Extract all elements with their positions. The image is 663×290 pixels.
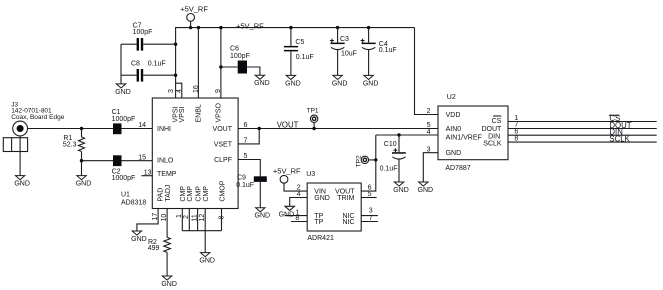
svg-text:Coax, Board Edge: Coax, Board Edge	[11, 114, 65, 121]
svg-text:CMP: CMP	[196, 186, 203, 202]
wire U1 pin4 VPSI stub	[176, 83, 182, 98]
svg-text:15: 15	[138, 154, 146, 161]
svg-text:4: 4	[427, 129, 431, 136]
svg-text:VOUT: VOUT	[213, 126, 233, 133]
svg-text:C9: C9	[237, 175, 246, 182]
wire VDD drop from rail to U2	[415, 28, 439, 115]
ground below PAD	[131, 231, 147, 243]
node junction C4 on rail	[367, 26, 370, 29]
node junction +5V circle on rail	[189, 26, 192, 29]
wire from +5V_RF circle to rail	[190, 21, 192, 27]
svg-text:0.1uF: 0.1uF	[236, 182, 254, 189]
svg-text:0.1uF: 0.1uF	[379, 47, 397, 54]
svg-text:AD8318: AD8318	[121, 200, 146, 207]
wire VSET feedback loop	[238, 129, 259, 144]
svg-text:AD7887: AD7887	[445, 165, 470, 172]
ground below C4	[363, 75, 379, 87]
ground below C9	[255, 208, 271, 220]
wire C7 right lead	[143, 43, 175, 45]
svg-text:VSET: VSET	[214, 142, 233, 149]
wire CMP pin1 down	[181, 209, 183, 231]
svg-text:8: 8	[219, 216, 226, 220]
svg-text:VDD: VDD	[446, 112, 461, 119]
svg-text:+5V_RF: +5V_RF	[180, 4, 208, 13]
svg-text:DOUT: DOUT	[481, 126, 502, 133]
capacitor C10 0.1uF polarized	[380, 141, 406, 172]
ground below C10	[393, 182, 409, 194]
node junction VSET feedback	[258, 127, 261, 130]
wire C6 left lead	[221, 66, 238, 68]
svg-text:CMOP: CMOP	[220, 180, 227, 201]
capacitor C6 100pF	[230, 46, 250, 74]
svg-text:NIC: NIC	[342, 219, 354, 226]
wire +5V rail horizontal	[175, 27, 414, 29]
capacitor C9 0.1uF	[236, 175, 267, 189]
svg-text:VOUT: VOUT	[277, 121, 299, 130]
svg-text:10uF: 10uF	[341, 51, 357, 58]
wire CMP pin11 down	[197, 209, 199, 231]
svg-text:C6: C6	[230, 46, 239, 53]
wire U3 NIC pin7 stub	[361, 221, 378, 223]
svg-text:AIN1/VREF: AIN1/VREF	[446, 135, 482, 142]
net label CS with overline	[609, 114, 620, 123]
voltage reference U3 ADR421 body	[306, 171, 361, 242]
capacitor C4 0.1uF polarized	[361, 39, 397, 54]
ground below CMP bus	[199, 253, 215, 265]
wire C10 bottom lead to ground	[398, 159, 400, 182]
svg-text:9: 9	[215, 89, 222, 93]
svg-text:TP: TP	[314, 219, 323, 226]
wire U1 pin16 ENBL vertical to rail	[197, 28, 199, 98]
wire U3 NIC pin3 stub	[361, 215, 378, 217]
svg-text:SCLK: SCLK	[609, 135, 630, 144]
svg-text:14: 14	[138, 122, 146, 129]
capacitor C1 1000pF	[112, 109, 136, 134]
ground below C5	[285, 75, 301, 87]
svg-text:1000pF: 1000pF	[112, 175, 136, 182]
svg-text:VPSI: VPSI	[179, 106, 186, 122]
wire DOUT net	[508, 128, 657, 130]
capacitor C7 100pF	[133, 22, 153, 50]
svg-text:0.1uF: 0.1uF	[380, 165, 398, 172]
svg-text:CMP: CMP	[203, 186, 210, 202]
svg-text:U1: U1	[121, 191, 130, 198]
svg-text:499: 499	[148, 245, 160, 252]
svg-text:3: 3	[168, 89, 175, 93]
node junction TP2 on riser	[374, 158, 377, 161]
node junction C10	[397, 133, 400, 136]
node junction TP1 on VOUT net	[312, 127, 315, 130]
svg-text:TEMP: TEMP	[157, 171, 177, 178]
wire AIN1/VREF net to U2 pin4	[376, 134, 438, 136]
svg-text:GND: GND	[314, 195, 330, 202]
svg-text:+5V_RF: +5V_RF	[273, 166, 301, 175]
wire CLPF pin5 to C9	[238, 160, 260, 177]
wire CMP bus to ground	[204, 231, 206, 253]
svg-text:TADJ: TADJ	[165, 185, 172, 202]
wire C1 to INHI pin14	[122, 128, 153, 130]
wire CMP pin2 down	[188, 209, 190, 231]
node junction VPSO on rail	[219, 26, 222, 29]
svg-text:INLO: INLO	[157, 158, 174, 165]
wire C9 to ground	[259, 182, 261, 208]
svg-text:16: 16	[193, 85, 200, 93]
wire C7/C8 left vertical	[120, 44, 122, 84]
power symbol +5V_RF (top)	[180, 4, 208, 21]
node junction C3 on rail	[336, 26, 339, 29]
node junction C8 to VPSI line	[174, 74, 177, 77]
svg-text:AIN0: AIN0	[446, 126, 462, 133]
wire PAD pin17 to ground	[137, 209, 158, 232]
wire U3 TP pin8 stub	[291, 221, 307, 223]
wire C6 right lead and down	[247, 67, 260, 75]
ground below R1	[76, 176, 92, 188]
svg-text:CMP: CMP	[187, 186, 194, 202]
svg-text:2: 2	[427, 108, 431, 115]
wire C5 top lead	[290, 28, 292, 46]
node junction C6 on VPSO line	[219, 65, 222, 68]
capacitor C8 0.1uF	[131, 60, 166, 81]
wire C5 bottom lead	[290, 51, 292, 75]
svg-text:C3: C3	[340, 36, 349, 43]
svg-text:0.1uF: 0.1uF	[296, 54, 314, 61]
svg-text:100pF: 100pF	[230, 53, 250, 60]
wire U1 pin3 VPSI vertical to rail	[175, 28, 177, 98]
power symbol +5V_RF (U3)	[273, 166, 301, 183]
svg-text:CLPF: CLPF	[214, 157, 232, 164]
svg-text:U2: U2	[447, 94, 456, 101]
ground below U3 pin4	[279, 206, 295, 218]
wire INLO net from R1 to C2	[82, 160, 114, 162]
wire J3 to INHI net	[28, 128, 114, 130]
svg-text:CS: CS	[492, 118, 502, 125]
svg-text:+5V_RF: +5V_RF	[236, 21, 264, 30]
wire TP1 stub	[313, 123, 315, 129]
wire C4 bottom lead	[368, 50, 370, 76]
svg-text:C10: C10	[384, 141, 397, 148]
svg-text:100pF: 100pF	[133, 29, 153, 36]
wire CMP pin12 down	[204, 209, 206, 231]
svg-text:TP1: TP1	[307, 107, 319, 114]
wire U1 pin9 VPSO vertical to rail	[220, 28, 222, 98]
wire J3 shield to ground	[19, 136, 21, 176]
node junction R1 bottom	[80, 159, 83, 162]
svg-text:ENBL: ENBL	[195, 104, 202, 122]
svg-text:TP2: TP2	[356, 155, 363, 167]
wire U3 GND pin4 to ground	[290, 198, 308, 207]
resistor R2 499 on TADJ	[148, 209, 171, 277]
test point TP1	[307, 107, 319, 122]
wire TP2 stub	[369, 159, 376, 161]
node junction C7 to VPSI line	[174, 43, 177, 46]
wire CMP bus horizontal	[182, 230, 221, 232]
wire U3 TRIM pin5 stub	[361, 197, 376, 199]
op-amp U1 AD8318 body	[121, 98, 238, 209]
wire U2 GND pin3 to ground	[423, 153, 438, 182]
wire C10 top lead	[398, 135, 400, 152]
wire CMOP pin8 down	[221, 209, 223, 231]
node junction ENBL on rail	[197, 26, 200, 29]
svg-text:U3: U3	[306, 171, 315, 178]
svg-text:PAD: PAD	[158, 188, 165, 202]
svg-text:4: 4	[176, 89, 183, 93]
wire U3 TP pin1 stub	[285, 215, 307, 217]
svg-text:VPSO: VPSO	[215, 102, 222, 122]
wire VOUT pin6 net to U2 AIN0	[238, 128, 438, 130]
ground below R2	[161, 276, 177, 288]
node junction R1 top	[80, 127, 83, 130]
wire TEMP pin13 stub	[142, 175, 153, 177]
wire C3 top lead	[337, 28, 339, 43]
capacitor C2 1000pF	[112, 155, 136, 182]
wire C8 left lead	[121, 74, 137, 76]
svg-text:C8: C8	[131, 60, 140, 67]
wire C8 right lead	[143, 74, 175, 76]
svg-text:SCLK: SCLK	[483, 140, 502, 147]
svg-text:GND: GND	[279, 211, 295, 218]
svg-text:3: 3	[369, 208, 373, 215]
wire SCLK net	[508, 141, 657, 143]
ground below C7/C8	[115, 84, 131, 96]
ground below C6	[254, 75, 270, 87]
connector J3 coax board edge	[3, 102, 64, 152]
svg-text:0.1uF: 0.1uF	[148, 60, 166, 67]
wire CS net	[508, 121, 657, 123]
node junction C5 on rail	[289, 26, 292, 29]
test point TP2	[356, 155, 369, 167]
wire C4 top lead	[368, 28, 370, 43]
wire +5V_RF to U3 VIN	[284, 183, 307, 191]
svg-text:DIN: DIN	[488, 133, 500, 140]
capacitor C5 0.1uF	[284, 39, 314, 61]
wire C7 left lead	[121, 43, 137, 45]
svg-text:ADR421: ADR421	[307, 235, 334, 242]
wire DIN net	[508, 134, 657, 136]
wire C2 to INLO pin15	[122, 160, 153, 162]
svg-text:INHI: INHI	[157, 126, 171, 133]
wire C3 bottom lead	[337, 50, 339, 76]
svg-text:8: 8	[514, 135, 518, 142]
svg-text:CMP: CMP	[180, 186, 187, 202]
wire R1 to ground	[81, 161, 83, 176]
ground below C3	[332, 75, 348, 87]
ground below J3	[14, 176, 30, 188]
svg-text:1000pF: 1000pF	[112, 116, 136, 123]
svg-text:C5: C5	[295, 39, 304, 46]
wire U3 VOUT pin6 riser to AIN1/VREF net	[361, 135, 376, 191]
resistor R1 52.3	[63, 129, 85, 161]
ground below U2 pin3	[418, 182, 434, 194]
capacitor C3 10uF polarized	[330, 36, 357, 58]
svg-text:52.3: 52.3	[63, 141, 77, 148]
svg-text:GND: GND	[446, 150, 462, 157]
adc U2 AD7887 body	[438, 94, 508, 172]
svg-text:TRIM: TRIM	[337, 195, 354, 202]
